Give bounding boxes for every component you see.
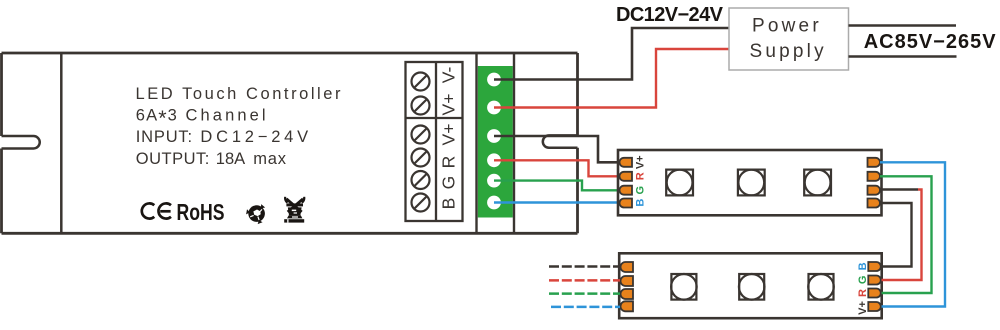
svg-text:V+: V+	[634, 155, 646, 169]
wire R red to strip 1	[494, 160, 620, 176]
terminal block body	[406, 62, 463, 221]
LED strip 2 body	[619, 253, 882, 318]
svg-text:AC85V−265V: AC85V−265V	[864, 31, 997, 53]
svg-text:B: B	[634, 199, 646, 207]
svg-text:R: R	[857, 289, 869, 297]
terminal block group divider	[406, 117, 463, 119]
strip 2 LED chip 1	[671, 274, 697, 300]
strip 1 left solder pads	[620, 158, 633, 208]
svg-text:Channel: Channel	[186, 106, 269, 124]
green output connector strip	[477, 53, 515, 233]
svg-text:Supply: Supply	[750, 41, 827, 62]
strip 2 left solder pads	[621, 262, 634, 311]
strip 2 right solder pads	[868, 262, 881, 311]
svg-text:R: R	[634, 172, 646, 180]
WEEE crossed-out bin icon	[284, 197, 305, 223]
strip 1 LED chip 2	[738, 170, 765, 196]
svg-text:G: G	[634, 186, 646, 195]
terminal labels V- V+ V+ R G B	[439, 67, 459, 210]
svg-text:DC12V−24V: DC12V−24V	[616, 4, 724, 26]
jumper wire green R strip1 to strip2	[880, 176, 932, 293]
svg-text:V+: V+	[857, 301, 869, 315]
left mounting slot	[2, 136, 40, 149]
svg-text:18A: 18A	[216, 150, 245, 168]
CE mark	[142, 203, 171, 218]
svg-text:R: R	[439, 156, 459, 169]
strip 2 LED chip 3	[808, 274, 834, 300]
svg-text:RoHS: RoHS	[177, 199, 225, 225]
power supply box	[729, 8, 849, 70]
terminal block label divider	[435, 62, 437, 221]
svg-text:B: B	[857, 262, 869, 270]
connector wire holes	[487, 73, 501, 210]
jumper wire G strip1 black segment	[880, 188, 918, 190]
wire V+ black to strip 1	[494, 136, 620, 162]
svg-text:V+: V+	[439, 124, 459, 146]
jumper wire G strip1 to strip2 red segment	[882, 190, 922, 281]
svg-text:V+: V+	[439, 94, 459, 116]
dashed continuation wire black	[549, 265, 620, 268]
svg-text:OUTPUT:: OUTPUT:	[136, 150, 210, 168]
controller label text	[136, 85, 342, 168]
LED strip 1 body	[618, 150, 882, 215]
wire V- black to power supply	[494, 28, 729, 80]
dashed continuation wire blue	[551, 306, 620, 309]
svg-text:DC12−24V: DC12−24V	[200, 128, 312, 146]
svg-text:B: B	[439, 198, 459, 210]
wire B blue to strip 1	[494, 201, 620, 203]
right mounting slot	[543, 135, 578, 147]
svg-text:V-: V-	[439, 67, 459, 84]
strip 1 LED chip 1	[666, 170, 693, 196]
controller U1 enclosure body	[2, 53, 578, 233]
strip 1 pad labels V+ R G B	[634, 155, 646, 206]
wire G green to strip 1	[494, 181, 620, 191]
dashed continuation wire red	[549, 279, 620, 282]
jumper wire black B strip1 to strip2	[880, 203, 912, 267]
strip 1 LED chip 3	[804, 170, 831, 196]
svg-text:Power: Power	[752, 16, 822, 37]
screw terminals	[412, 73, 430, 212]
strip 1 right solder pads	[868, 158, 881, 208]
AC line wire bottom	[849, 55, 957, 58]
svg-text:max: max	[253, 150, 287, 168]
svg-text:INPUT:: INPUT:	[136, 128, 193, 146]
svg-text:G: G	[857, 276, 869, 285]
recycle gear icon	[246, 204, 265, 224]
controller mounting-tab divider	[60, 53, 63, 233]
dashed continuation wire green	[549, 292, 620, 295]
strip 2 LED chip 2	[739, 274, 765, 300]
svg-text:G: G	[439, 176, 459, 190]
AC line wire top	[849, 24, 957, 27]
svg-text:LED Touch Controller: LED Touch Controller	[136, 85, 342, 103]
wire V+ red to power supply	[494, 49, 729, 108]
strip 2 pad labels B G R V+	[857, 262, 869, 315]
jumper wire blue V+ strip1 to strip2	[880, 162, 945, 306]
power supply text	[750, 16, 827, 63]
